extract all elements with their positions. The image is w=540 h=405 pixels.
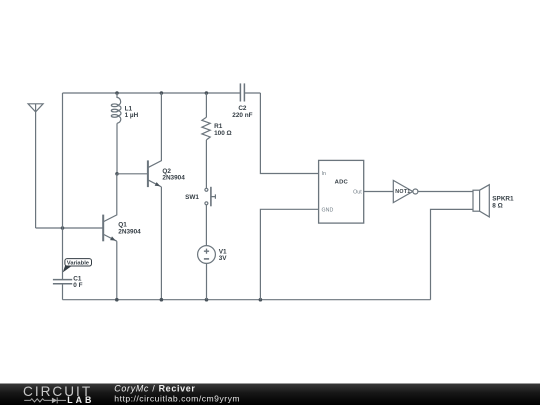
switch SW1 [205, 187, 216, 207]
svg-text:NOT1: NOT1 [395, 189, 410, 195]
svg-text:SPKR1: SPKR1 [492, 195, 514, 202]
svg-text:Variable: Variable [67, 261, 90, 267]
label SPKR1 value [492, 195, 514, 209]
node junction left-rail base [61, 226, 65, 230]
label L1 value [125, 105, 139, 119]
inverter NOT1 [393, 180, 418, 202]
svg-text:C2: C2 [238, 105, 247, 112]
wire SW1 to V1 [205, 205, 207, 246]
wire Q1 emitter down [116, 241, 118, 300]
IC ADC U1 [319, 160, 364, 223]
wire bottom bus [63, 299, 431, 301]
wire C2 to right corner [244, 92, 260, 94]
capacitor C2 [240, 83, 244, 101]
wire NOT1 to speaker [418, 191, 473, 193]
svg-text:100 Ω: 100 Ω [214, 130, 232, 137]
wire antenna to Q1 base [36, 227, 103, 229]
node R1 top [205, 91, 209, 95]
node bottom V1 [205, 298, 209, 302]
node Q2 base / Q1 collector junction [115, 172, 119, 176]
annotation Variable callout [63, 259, 92, 273]
svg-text:SW1: SW1 [185, 194, 199, 201]
wire antenna lead down [35, 112, 37, 228]
node bottom ADC gnd [259, 298, 263, 302]
wire R1 to SW1 [205, 140, 207, 188]
wire left rail vertical [62, 93, 64, 279]
wire base node to Q2 [117, 173, 147, 175]
wire ADC GND return [260, 209, 318, 299]
svg-text:8 Ω: 8 Ω [492, 203, 502, 210]
wire right rail down to ADC In [260, 93, 318, 174]
label Q2 value [162, 168, 185, 182]
wire speaker return [431, 209, 474, 299]
svg-text:2N3904: 2N3904 [162, 175, 185, 182]
svg-text:3V: 3V [219, 255, 228, 262]
label C1 value [73, 275, 82, 289]
svg-text:GND: GND [322, 207, 334, 213]
svg-text:In: In [322, 171, 326, 177]
svg-text:CoryMc / Reciver: CoryMc / Reciver [114, 384, 195, 394]
wire C1 bottom lead [62, 284, 64, 300]
wire Q2 emitter down [160, 187, 162, 300]
capacitor C1 [53, 280, 72, 284]
label R1 value [214, 123, 232, 137]
resistor R1 [202, 117, 210, 140]
voltage source V1 [198, 246, 216, 264]
transistor Q1 [103, 174, 117, 242]
wire top bus [63, 92, 241, 94]
node L1 top [115, 91, 119, 95]
node bottom Q1 emitter [115, 298, 119, 302]
label Q1 value [118, 222, 141, 236]
speaker SPKR1 [473, 185, 489, 217]
label V1 value [219, 249, 228, 262]
antenna ANT [28, 104, 43, 112]
svg-text:http://circuitlab.com/cm9yrym: http://circuitlab.com/cm9yrym [114, 393, 240, 403]
logo resistor-diode glyph [24, 397, 66, 403]
wire R1 top lead [205, 93, 207, 117]
transistor Q2 [148, 93, 162, 187]
svg-text:220 nF: 220 nF [232, 112, 252, 119]
svg-text:0 F: 0 F [73, 282, 82, 289]
wire V1 bottom lead [206, 263, 208, 299]
label C2 value [232, 105, 252, 119]
svg-text:1 µH: 1 µH [125, 112, 139, 119]
svg-text:LAB: LAB [67, 395, 94, 405]
svg-text:ADC: ADC [335, 179, 349, 185]
wire L1 bottom to base node [116, 123, 118, 174]
svg-text:2N3904: 2N3904 [118, 228, 141, 235]
node bottom Q2 emitter [160, 298, 164, 302]
wire ADC Out to NOT1 [364, 191, 394, 193]
svg-text:Out: Out [353, 190, 362, 196]
node Q2 collector top [160, 91, 164, 95]
inductor L1 [111, 93, 121, 123]
footer bar [0, 384, 540, 405]
